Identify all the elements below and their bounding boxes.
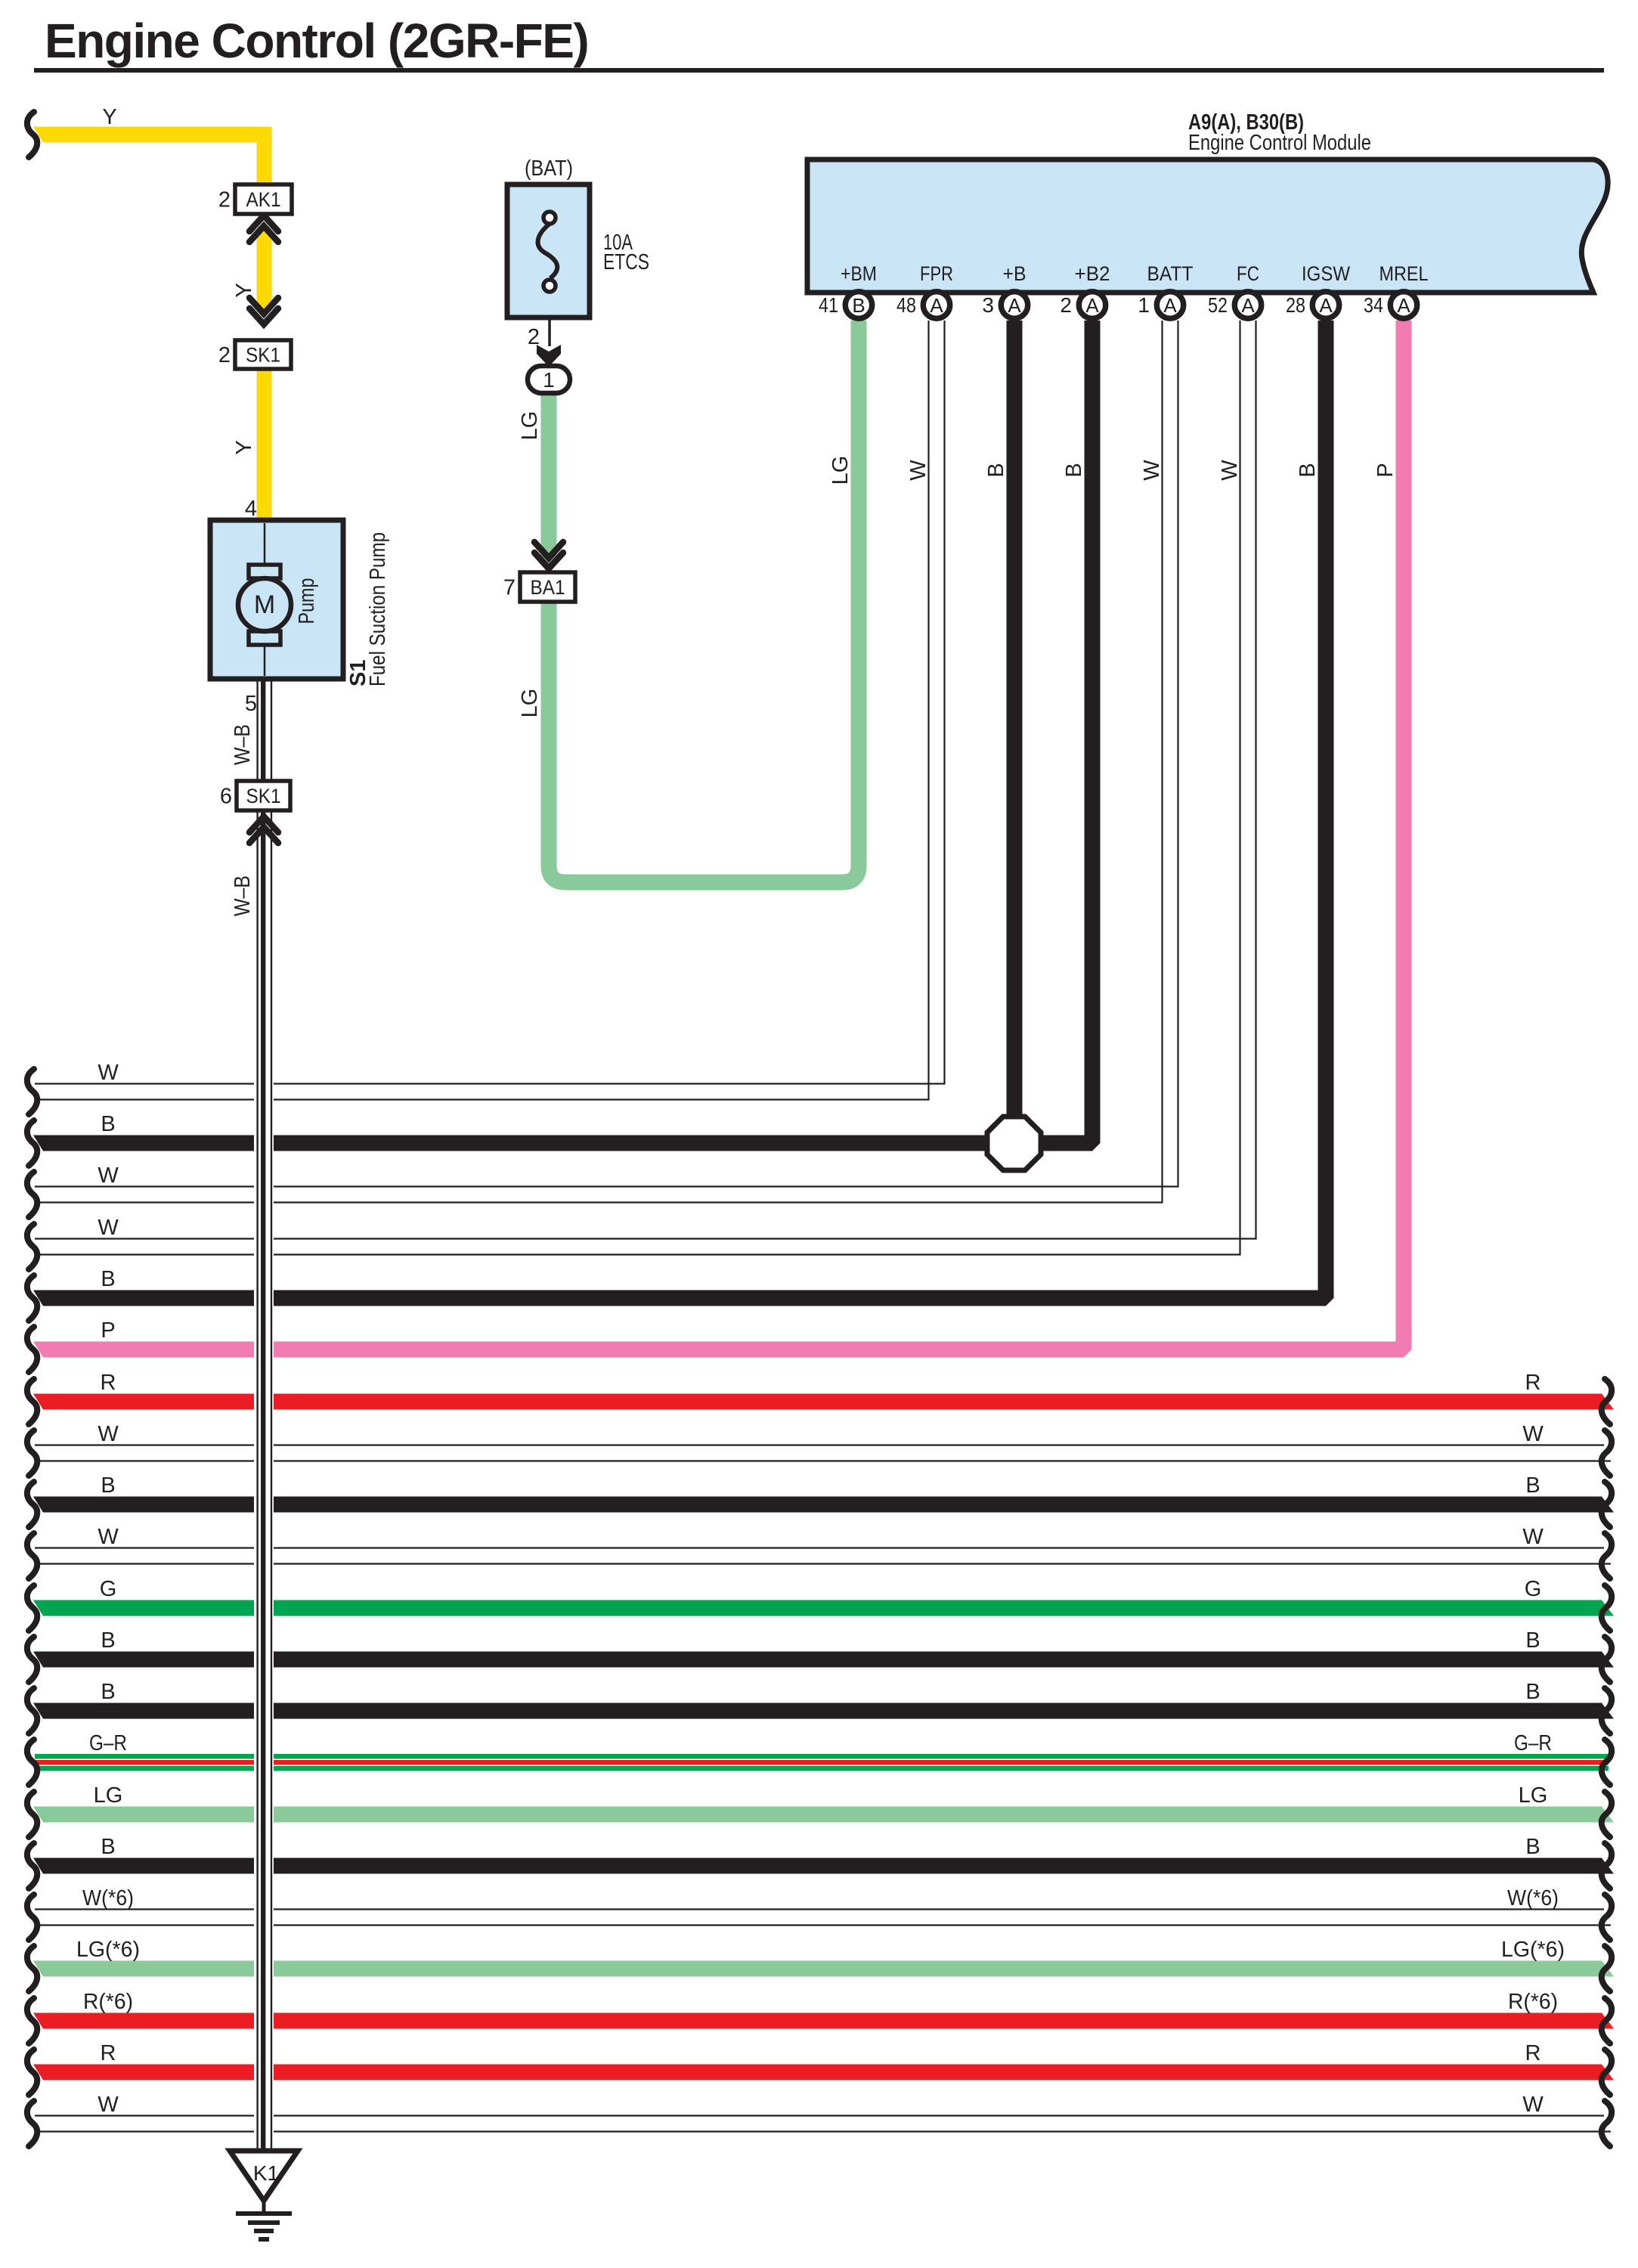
svg-text:28: 28 [1286,293,1305,317]
svg-text:SK1: SK1 [246,785,281,807]
svg-text:LG: LG [94,1783,123,1808]
svg-text:34: 34 [1364,293,1383,317]
svg-text:2: 2 [218,188,231,212]
svg-text:3: 3 [982,293,994,317]
svg-text:W: W [98,1422,119,1446]
svg-text:(BAT): (BAT) [525,156,573,181]
svg-text:48: 48 [896,293,916,317]
svg-text:4: 4 [245,497,257,521]
svg-text:1: 1 [543,368,555,392]
svg-text:Engine Control Module: Engine Control Module [1188,131,1371,155]
svg-text:B: B [101,1680,115,1704]
svg-text:R: R [1525,1371,1541,1395]
svg-text:LG: LG [1519,1783,1548,1808]
svg-text:41: 41 [819,293,838,317]
svg-text:IGSW: IGSW [1302,262,1350,285]
svg-text:SK1: SK1 [246,344,280,367]
svg-text:B: B [1296,463,1320,477]
svg-text:B: B [1525,1680,1540,1704]
svg-text:P: P [1373,463,1398,477]
svg-text:B: B [101,1628,115,1653]
svg-text:B: B [1525,1835,1540,1859]
svg-text:LG(*6): LG(*6) [76,1938,140,1962]
svg-text:G–R: G–R [1514,1731,1552,1755]
svg-text:AK1: AK1 [246,188,281,211]
svg-text:W–B: W–B [231,875,255,916]
svg-text:W–B: W–B [231,724,255,765]
svg-text:2: 2 [1060,293,1072,317]
svg-text:W: W [906,460,930,481]
svg-text:ETCS: ETCS [603,250,649,274]
svg-text:W: W [98,1525,119,1549]
svg-text:M: M [254,590,275,619]
svg-text:W: W [98,1163,119,1188]
svg-text:W: W [98,1216,119,1240]
svg-text:G: G [1525,1577,1542,1601]
svg-text:B: B [101,1473,115,1498]
svg-text:R: R [101,2041,116,2065]
svg-text:Engine Control (2GR-FE): Engine Control (2GR-FE) [45,14,588,68]
svg-text:W(*6): W(*6) [1507,1886,1559,1910]
svg-text:R: R [101,1371,116,1395]
svg-text:B: B [1525,1628,1540,1653]
svg-text:W: W [1522,1525,1544,1549]
svg-text:A: A [1085,294,1099,317]
svg-text:K1: K1 [253,2161,279,2185]
svg-text:FC: FC [1237,262,1259,285]
svg-text:P: P [101,1318,115,1343]
svg-text:LG: LG [518,689,542,718]
svg-text:+BM: +BM [841,262,877,285]
svg-text:B: B [101,1835,115,1859]
svg-text:MREL: MREL [1379,262,1429,285]
svg-text:Y: Y [232,283,256,297]
svg-text:2: 2 [218,343,231,367]
svg-text:Y: Y [102,105,116,129]
svg-text:Fuel Suction Pump: Fuel Suction Pump [366,532,390,686]
svg-text:B: B [1062,463,1086,477]
svg-text:+B: +B [1003,262,1026,285]
svg-text:B: B [984,463,1008,477]
svg-text:W: W [1140,460,1164,481]
svg-text:A: A [1397,294,1410,317]
svg-text:W: W [98,1061,119,1085]
svg-text:A: A [1008,294,1021,317]
svg-text:LG: LG [828,456,853,485]
svg-text:52: 52 [1208,293,1228,317]
svg-text:7: 7 [503,576,516,600]
svg-text:A: A [1319,294,1333,317]
svg-text:G–R: G–R [89,1731,127,1755]
svg-text:BATT: BATT [1147,262,1194,285]
svg-text:R(*6): R(*6) [83,1990,133,2014]
svg-text:W: W [1218,460,1242,481]
svg-text:W: W [1522,1422,1544,1446]
svg-text:A: A [1241,294,1255,317]
svg-text:Pump: Pump [295,578,319,624]
svg-text:W: W [1522,2093,1544,2117]
svg-text:W: W [98,2093,119,2117]
svg-text:W(*6): W(*6) [82,1886,134,1910]
svg-text:A: A [930,294,943,317]
svg-text:R: R [1525,2041,1541,2065]
svg-text:LG(*6): LG(*6) [1501,1938,1565,1962]
svg-text:B: B [852,294,865,317]
svg-text:BA1: BA1 [531,576,565,599]
svg-text:B: B [1525,1473,1540,1498]
svg-text:R(*6): R(*6) [1508,1990,1558,2014]
svg-text:+B2: +B2 [1075,262,1110,285]
svg-text:A: A [1163,294,1177,317]
svg-text:1: 1 [1138,293,1150,317]
svg-text:6: 6 [220,785,232,809]
svg-text:5: 5 [245,692,257,716]
svg-text:B: B [101,1267,115,1291]
svg-text:LG: LG [518,411,542,441]
svg-text:FPR: FPR [920,262,953,285]
svg-text:B: B [101,1112,115,1136]
svg-text:Y: Y [232,440,256,454]
svg-text:G: G [100,1577,117,1601]
